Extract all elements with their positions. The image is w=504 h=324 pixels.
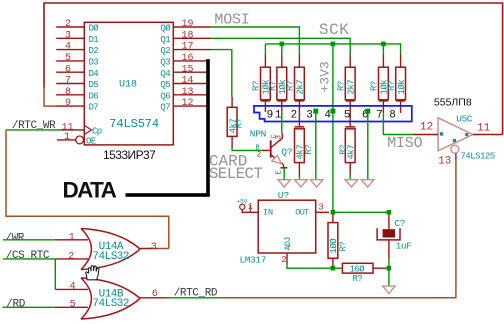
svg-text:DATA: DATA	[63, 178, 117, 203]
U5C pin 12 input stub	[413, 121, 438, 134]
ground below 4k7 pin5	[345, 180, 358, 187]
U18 pin 1 OE (inverted)	[57, 132, 96, 147]
wire /RTC_WR brown loop to U14A output	[6, 130, 169, 249]
svg-text:Q5: Q5	[160, 80, 170, 90]
power symbol +5V	[237, 199, 248, 210]
svg-text:Cp: Cp	[92, 127, 102, 137]
svg-text:R?: R?	[286, 81, 296, 91]
svg-text:D5: D5	[89, 80, 99, 90]
svg-text:2: 2	[281, 255, 286, 265]
svg-text:/WR: /WR	[5, 233, 24, 245]
net /RD label and wire	[3, 298, 55, 310]
pin5 contact bar	[345, 126, 355, 128]
svg-text:D3: D3	[89, 58, 99, 68]
svg-text:R?: R?	[370, 81, 380, 91]
svg-text:19: 19	[182, 19, 194, 30]
wire R6 stub into connector pin8	[396, 100, 405, 113]
wire MISO from pin7	[383, 113, 413, 134]
op-gate U14A 74LS32	[81, 229, 140, 270]
svg-text:3: 3	[306, 110, 313, 122]
U18 pin 8 D6	[56, 87, 98, 102]
U18 pin 3 D1	[56, 30, 98, 45]
svg-text:4: 4	[70, 282, 76, 293]
U18 pin 9 D7	[56, 98, 98, 113]
svg-text:74LS32: 74LS32	[92, 298, 129, 310]
svg-text:74LS574: 74LS574	[109, 117, 159, 131]
svg-text:C?: C?	[394, 218, 405, 229]
svg-text:MISO: MISO	[387, 135, 422, 152]
svg-text:3: 3	[151, 242, 157, 253]
svg-text:16: 16	[182, 53, 194, 64]
svg-text:15: 15	[182, 64, 194, 75]
ground below divider	[383, 286, 396, 293]
net /RTC_RD label and wire	[170, 288, 220, 300]
svg-text:LM317: LM317	[240, 254, 267, 265]
wire R5 stub into connector pin7	[379, 100, 388, 113]
svg-text:OE: OE	[86, 137, 96, 147]
svg-text:3: 3	[274, 135, 283, 140]
transistor Q? NPN	[250, 129, 292, 175]
svg-text:2: 2	[291, 110, 298, 122]
svg-text:555ЛП8: 555ЛП8	[434, 96, 472, 108]
svg-text:16Ø: 16Ø	[350, 265, 366, 275]
mouse hand cursor	[86, 266, 99, 280]
svg-text:Q7: Q7	[160, 103, 170, 113]
svg-text:18: 18	[182, 30, 194, 41]
svg-text:/CS_RTC: /CS_RTC	[6, 250, 50, 262]
svg-text:3: 3	[318, 202, 323, 212]
svg-text:8: 8	[389, 110, 396, 122]
connector pin contact bars	[261, 100, 270, 102]
capacitor C? 1uF polarized	[377, 215, 412, 258]
junction on +3V3 rail at R2	[280, 42, 285, 55]
svg-text:D4: D4	[89, 69, 99, 79]
U18 pin 16 Q3	[160, 53, 208, 68]
junction at LM317 output	[331, 210, 336, 215]
svg-text:SCK: SCK	[319, 21, 350, 39]
svg-text:1: 1	[248, 202, 253, 212]
svg-text:R?: R?	[252, 81, 262, 91]
wire top border net from U5C output	[44, 3, 503, 135]
svg-text:D1: D1	[89, 35, 99, 45]
svg-text:NPN: NPN	[250, 129, 266, 140]
resistor R? 4k7 base of Q?	[227, 107, 244, 136]
svg-text:5: 5	[344, 110, 351, 122]
svg-text:R?: R?	[387, 81, 397, 91]
svg-text:7: 7	[376, 110, 383, 122]
svg-text:+5V: +5V	[237, 199, 248, 206]
ground below pin3	[310, 180, 323, 187]
svg-text:IN: IN	[263, 208, 273, 218]
svg-text:17: 17	[182, 42, 194, 53]
wire 4k7 pin5 to ground	[349, 163, 351, 176]
svg-text:12: 12	[182, 98, 194, 109]
U18 pin 14 Q5	[160, 76, 208, 91]
resistor R? 2k7 series MOSI	[286, 54, 306, 100]
wire MOSI stub through connector pin2	[298, 100, 300, 127]
U18 pin 15 Q4	[160, 64, 208, 79]
wire enable down to /RTC_RD	[220, 160, 456, 298]
resistor R? 4k7 pulldown pin5	[339, 129, 357, 163]
svg-text:13: 13	[438, 155, 451, 167]
wire SCK	[211, 38, 350, 54]
wire +5V to LM317 IN pin 1	[242, 202, 258, 212]
svg-text:1: 1	[275, 110, 282, 122]
U18 pin 17 Q2	[160, 42, 211, 57]
svg-text:R?: R?	[235, 118, 245, 128]
wire pin6 to ground	[367, 114, 369, 180]
connector pin3 connection square	[313, 109, 318, 114]
U18 pin 11 Cp clock	[61, 122, 102, 136]
wire R-base top stub	[231, 97, 233, 108]
resistor R? 100	[328, 215, 349, 269]
svg-text:3: 3	[65, 30, 71, 41]
LM317 ADJ pin 2	[281, 253, 287, 265]
svg-text:U18: U18	[119, 80, 137, 91]
wire C? to junction and ground	[388, 258, 390, 286]
svg-text:1uF: 1uF	[396, 240, 413, 251]
svg-text:/RD: /RD	[6, 298, 25, 310]
svg-text:12: 12	[420, 121, 433, 133]
wire SCK stub through connector pin5	[349, 100, 351, 127]
svg-text:6: 6	[65, 64, 71, 75]
wire MOSI	[211, 27, 299, 54]
svg-text:R?: R?	[304, 145, 314, 155]
svg-text:2: 2	[257, 150, 262, 159]
wire R-pin1 stub into connector	[281, 100, 283, 112]
resistor R? 10k pull-up MISO	[370, 54, 390, 100]
U18 pin 7 D5	[56, 76, 98, 91]
U18 pin 19 Q0	[160, 19, 211, 33]
svg-text:4: 4	[65, 42, 71, 53]
svg-text:74LS125: 74LS125	[460, 151, 494, 161]
junction on +3V3 rail at R5	[381, 42, 386, 55]
svg-text:R?: R?	[339, 145, 349, 155]
svg-text:2k7: 2k7	[296, 80, 306, 95]
wire R-pin9 stub into connector	[264, 100, 266, 112]
U18 pin 2 D0	[56, 19, 99, 33]
U5C pin 11 output stub	[473, 123, 503, 135]
svg-text:Q3: Q3	[160, 58, 170, 68]
IC U5C 74LS125 buffer triangle	[438, 113, 495, 161]
svg-text:R?: R?	[336, 81, 346, 91]
op-gate U14B 74LS32	[81, 278, 140, 319]
svg-text:MOSI: MOSI	[214, 11, 249, 28]
wire R-base bottom to Q? base	[231, 136, 233, 147]
svg-text:SELECT: SELECT	[209, 165, 263, 183]
resistor R? 160 horizontal	[335, 263, 386, 284]
wire +3V3 from LM317 out to C? column	[333, 211, 389, 213]
bus DATA vertical	[206, 59, 210, 195]
svg-text:74LS32: 74LS32	[92, 251, 129, 263]
wire pin3 to ground	[315, 114, 317, 180]
svg-text:U?: U?	[278, 190, 289, 201]
wire Q? emitter to ground	[283, 168, 285, 180]
junction ADJ/100/160	[331, 266, 336, 271]
svg-text:Q?: Q?	[281, 147, 292, 158]
U18 pin 4 D2	[56, 42, 98, 57]
svg-text:1Øk: 1Øk	[397, 80, 407, 95]
ground below Q? emitter	[278, 180, 291, 187]
bus DATA horizontal	[126, 193, 210, 197]
svg-text:9: 9	[65, 98, 71, 109]
resistor R? 10k pull-up pin8	[387, 54, 407, 100]
connector pin6 connection square	[365, 109, 370, 114]
ground below 4k7 pin2	[295, 180, 308, 187]
resistor R? 4k7 pulldown pin2	[295, 129, 314, 163]
U14A pin 3 output	[140, 242, 169, 253]
svg-text:9: 9	[267, 110, 274, 122]
U18 pin 5 D3	[56, 53, 98, 68]
U14B pin 6 output	[140, 289, 170, 300]
U14A pin 2 stub	[55, 251, 88, 262]
U5C pin 13 enable stub	[438, 153, 456, 167]
svg-text:14: 14	[182, 76, 194, 87]
svg-text:R?: R?	[353, 274, 363, 284]
resistor R? 2k7 series SCK	[336, 54, 356, 100]
U14B pin 4 stub	[55, 282, 88, 293]
net /WR label and wire	[3, 233, 54, 245]
svg-text:13: 13	[182, 87, 194, 98]
svg-text:4: 4	[324, 110, 331, 122]
svg-text:1533ИР37: 1533ИР37	[103, 148, 156, 162]
svg-text:5: 5	[70, 300, 76, 311]
connector J? micro-SD card socket	[254, 106, 412, 122]
svg-text:D6: D6	[89, 91, 99, 101]
junction 160/C?/gnd	[387, 266, 392, 271]
svg-text:ADJ: ADJ	[283, 237, 293, 251]
svg-text:11: 11	[477, 123, 491, 135]
U18 pin 12 Q7	[160, 98, 208, 113]
svg-text:OUT: OUT	[295, 208, 309, 218]
wire pin1 down to Q? collector	[281, 112, 283, 134]
pin2 contact bar	[295, 126, 305, 128]
junction +3V3 at C?	[387, 210, 392, 215]
wire +3V3 rail	[265, 44, 400, 54]
wire 4k7 pin2 to ground	[298, 163, 300, 176]
LM317 OUT pin 3	[316, 202, 329, 212]
wire brown segment into U18 pin 9	[44, 86, 57, 106]
svg-text:8: 8	[65, 87, 71, 98]
U18 pin 13 Q6	[160, 87, 208, 102]
U14B pin 5 stub	[55, 300, 88, 311]
U18 pin 18 Q1	[160, 30, 211, 45]
svg-text:D2: D2	[89, 46, 99, 56]
svg-text:R?: R?	[339, 242, 349, 252]
svg-text:Q6: Q6	[160, 91, 170, 101]
svg-text:2: 2	[68, 251, 74, 262]
svg-text:QØ: QØ	[160, 24, 171, 34]
resistor R? 10k pull-up pin9	[252, 54, 272, 100]
svg-text:6: 6	[152, 289, 158, 300]
svg-text:Q2: Q2	[160, 46, 170, 56]
svg-text:U5C: U5C	[456, 113, 473, 124]
svg-text:2k7: 2k7	[346, 80, 356, 95]
svg-text:E: E	[275, 170, 283, 174]
wire /RTC_WR green segment	[6, 129, 61, 131]
wire +3V3 drop to R1	[264, 44, 266, 54]
regulator U? LM317 body	[240, 190, 316, 265]
U14A pin 1 stub	[54, 232, 88, 243]
svg-text:1ØØ: 1ØØ	[329, 238, 339, 254]
IC U18 74LS574 body	[84, 22, 173, 145]
ground below pin6	[361, 180, 374, 187]
resistor R? 10k pull-up pin1	[268, 54, 288, 100]
svg-text:Q4: Q4	[160, 69, 170, 79]
svg-text:DØ: DØ	[89, 24, 100, 34]
svg-text:R?: R?	[268, 81, 278, 91]
svg-text:+3V3: +3V3	[318, 61, 333, 92]
junction on +3V3 rail feeding LM317 column	[331, 42, 336, 210]
net /CS_RTC label and wire	[3, 250, 55, 290]
svg-text:Q1: Q1	[160, 35, 170, 45]
net label CARD SELECT	[209, 153, 263, 184]
svg-text:2: 2	[65, 19, 71, 30]
U18 pin 6 D4	[56, 64, 98, 79]
wire Q2 to card-select resistor	[211, 50, 232, 97]
svg-text:1: 1	[64, 132, 70, 143]
connector pin4 connection square	[330, 109, 335, 114]
svg-text:D7: D7	[89, 103, 99, 113]
svg-text:7: 7	[65, 76, 71, 87]
wire ADJ to divider junction	[287, 264, 333, 269]
svg-text:1: 1	[69, 232, 75, 243]
svg-text:5: 5	[65, 53, 71, 64]
